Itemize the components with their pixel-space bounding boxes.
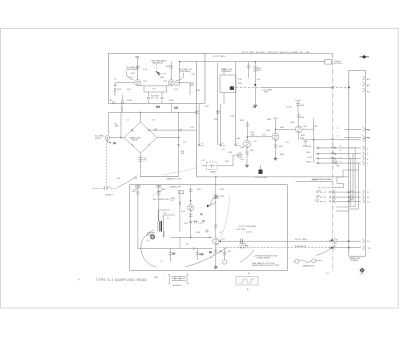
transistor Q45 bbox=[272, 133, 279, 140]
wire strobe line y130 bbox=[148, 129, 197, 131]
bridge rect T13 bbox=[144, 86, 167, 92]
wire mid box bottom bbox=[197, 176, 349, 178]
svg-text:A-5040-C: A-5040-C bbox=[173, 284, 183, 287]
svg-text:AMPL: AMPL bbox=[213, 197, 220, 200]
wire left edge down to input bbox=[108, 112, 110, 134]
wire Q35 emitter down bbox=[245, 147, 249, 165]
wire vertical R33 chain bbox=[254, 62, 256, 105]
ground arrow bbox=[254, 105, 258, 108]
svg-text:BLOCKING OSC: BLOCKING OSC bbox=[153, 199, 170, 201]
svg-text:2AT: 2AT bbox=[115, 125, 120, 128]
wire Q35 collector chain bbox=[246, 121, 250, 129]
feedthrough caps on edge bbox=[136, 185, 138, 187]
transformer T10 bbox=[160, 221, 162, 232]
wire H2 mid box top bbox=[198, 61, 326, 63]
tick segs at arrow tips bbox=[201, 145, 241, 147]
svg-text:INPUT: INPUT bbox=[95, 138, 102, 140]
svg-text:TRIG SENS: TRIG SENS bbox=[126, 69, 138, 71]
transistor Q13 bbox=[135, 80, 141, 86]
connector J on bottom edge bbox=[121, 101, 124, 104]
pin rows lower bbox=[336, 207, 349, 211]
wire H2 left junction drop bbox=[174, 62, 198, 86]
svg-text:TRIG AMPL: TRIG AMPL bbox=[179, 70, 191, 73]
pin arrows upper group bbox=[363, 76, 365, 80]
component +12.8 stub bbox=[295, 101, 301, 112]
junction beads bbox=[140, 112, 142, 114]
tek logo diamond bbox=[360, 268, 364, 272]
svg-text:READINGS: READINGS bbox=[303, 265, 315, 268]
svg-text:56R: 56R bbox=[264, 92, 268, 94]
svg-text:SAMPLE LOOP: SAMPLE LOOP bbox=[166, 178, 182, 181]
wire dashed vertical from input bbox=[105, 140, 107, 188]
wire base links bbox=[247, 129, 272, 140]
svg-text:BALANCE: BALANCE bbox=[153, 62, 164, 65]
wire Q14 chains bbox=[189, 185, 193, 205]
wire strobe arrows from box A bbox=[198, 104, 200, 146]
svg-text:OUT 50Ω: OUT 50Ω bbox=[236, 229, 246, 231]
right arrowheads bbox=[334, 147, 337, 164]
wire H1 top bbox=[204, 53, 333, 55]
top arrow glyph bbox=[360, 56, 370, 58]
transistor Q35 bbox=[244, 141, 251, 148]
svg-text:+100V: +100V bbox=[126, 100, 133, 102]
svg-text:+DLY'D TRIGGER: +DLY'D TRIGGER bbox=[238, 226, 256, 228]
dotted callout arc bbox=[163, 168, 198, 176]
blocking osc box S10 bbox=[220, 75, 236, 93]
wire outputs right bbox=[302, 118, 314, 163]
wire dashed horizontal y188 bbox=[92, 187, 118, 189]
svg-text:RESET: RESET bbox=[147, 235, 155, 237]
wire diamond right bbox=[157, 137, 179, 139]
svg-text:+: + bbox=[78, 278, 80, 282]
svg-text:+(1.5): +(1.5) bbox=[246, 232, 252, 234]
svg-text:AMPLIFIER BOARD: AMPLIFIER BOARD bbox=[312, 178, 332, 181]
ground stubs bbox=[245, 158, 277, 168]
R45 left chain bbox=[179, 190, 181, 232]
svg-text:BOARD: BOARD bbox=[351, 259, 359, 262]
attenuator dashed box bbox=[207, 162, 217, 170]
wire R-AT vertical bbox=[120, 112, 122, 137]
wire Q23 collector up bbox=[170, 62, 172, 80]
wire base Q23 right bbox=[175, 83, 190, 95]
rows 2-5 with left arrows bbox=[317, 147, 349, 149]
callout arc right bbox=[176, 73, 184, 81]
X mark bbox=[202, 220, 204, 222]
signal pins mid group bbox=[344, 127, 364, 131]
wire Q45 chain bbox=[274, 140, 278, 158]
transistor Q55 bbox=[295, 126, 302, 133]
timing box bbox=[325, 60, 332, 65]
connector strip bbox=[349, 71, 366, 257]
sampling bridge diamond bbox=[124, 122, 157, 153]
TP circle bbox=[112, 102, 114, 104]
pot dashed pointer bbox=[156, 64, 158, 70]
callout arcs bbox=[210, 197, 229, 260]
callout arc left bbox=[126, 71, 133, 80]
callout arc to sample loop bbox=[118, 176, 138, 188]
svg-text:RESET: RESET bbox=[106, 194, 114, 196]
svg-text:SEMICONDUCTOR TYPES: SEMICONDUCTOR TYPES bbox=[252, 265, 280, 267]
svg-text:SCOPE: SCOPE bbox=[334, 63, 342, 65]
wire Q23 output down bbox=[171, 103, 173, 112]
hop marks over V1 bbox=[331, 139, 334, 164]
svg-text:AMPL: AMPL bbox=[211, 171, 218, 174]
parts table box bbox=[168, 274, 189, 283]
svg-text:SNAP OFF: SNAP OFF bbox=[170, 186, 182, 189]
svg-text:GATE: GATE bbox=[132, 139, 138, 142]
cap C16 bbox=[194, 220, 198, 223]
wire base Q13 left bbox=[115, 83, 135, 87]
transistor Q14 blocking osc bbox=[188, 205, 194, 211]
wire sample loop bottom bbox=[140, 175, 179, 177]
pin hooks for output rows bbox=[363, 138, 365, 165]
box A trigger pickoff outline bbox=[109, 54, 206, 104]
wire delay line right bbox=[262, 86, 333, 88]
wire long vertical x178.7 bbox=[178, 112, 180, 176]
emitter follower Q5 circle bbox=[222, 260, 226, 264]
svg-text:+15V: +15V bbox=[314, 200, 320, 202]
resistor R37 chain bbox=[247, 62, 250, 78]
svg-text:CURRENT: CURRENT bbox=[221, 71, 232, 73]
svg-text:BLANKING: BLANKING bbox=[295, 245, 306, 248]
resistor R11 bbox=[121, 102, 123, 112]
wire dashed strobe line bbox=[232, 86, 349, 88]
svg-text:1M: 1M bbox=[181, 153, 184, 155]
wire input to diamond bbox=[110, 137, 124, 139]
big callout arc around TD bbox=[141, 230, 156, 267]
wire diamond bottom down bbox=[140, 153, 142, 176]
wire Q4 vertical bbox=[214, 177, 218, 238]
svg-text:+10V: +10V bbox=[307, 157, 313, 159]
wire diamond top up bbox=[140, 112, 142, 122]
wire V1 dash-dot bbox=[332, 54, 334, 249]
wire +12.8 row bbox=[296, 180, 333, 182]
svg-text:DC OFFSET: DC OFFSET bbox=[255, 177, 268, 179]
transistor Q23 bbox=[168, 80, 174, 86]
svg-text:DLY'D TRIG: DLY'D TRIG bbox=[295, 239, 307, 241]
svg-text:TRIG: TRIG bbox=[306, 162, 312, 164]
svg-text:TYPE S-2 SAMPLING HEAD: TYPE S-2 SAMPLING HEAD bbox=[96, 278, 147, 282]
wire B1 stub bbox=[137, 59, 139, 80]
svg-text:+12.8: +12.8 bbox=[286, 106, 292, 108]
svg-text:R4 50: R4 50 bbox=[240, 248, 247, 250]
input connector J1 bbox=[105, 136, 109, 140]
wire bus nest bbox=[349, 148, 355, 207]
box lower oscillator outline bbox=[130, 185, 288, 271]
svg-text:+SIG: +SIG bbox=[306, 146, 311, 148]
wire bottom rows bbox=[332, 241, 349, 248]
snap-off callout blob bbox=[207, 205, 210, 208]
variable cap arrow C17 bbox=[156, 71, 161, 76]
tunnel diode TD bbox=[151, 235, 155, 239]
wire tunnel diode branch bbox=[136, 185, 140, 249]
small component marks bbox=[200, 213, 203, 216]
diode marks on diamond bbox=[131, 129, 150, 147]
svg-text:DLY'D TRIG: DLY'D TRIG bbox=[213, 56, 225, 58]
svg-text:+50V: +50V bbox=[316, 190, 322, 192]
row1 bbox=[302, 139, 349, 141]
svg-text:COMPONENT: COMPONENT bbox=[256, 258, 271, 260]
svg-text:-100V: -100V bbox=[168, 100, 174, 102]
wire mid box left edge bbox=[196, 62, 198, 177]
wire Q55 chain bbox=[297, 112, 301, 126]
svg-text:DLY'D TRIG · HF SYNC · TRIG OU: DLY'D TRIG · HF SYNC · TRIG OUT · SMOOTH… bbox=[242, 51, 310, 54]
transistor Q4 bbox=[213, 238, 219, 244]
wire h links bbox=[138, 247, 213, 250]
waveform symbol bbox=[236, 277, 258, 286]
svg-text:-SIG: -SIG bbox=[306, 152, 311, 154]
pot R67 bbox=[259, 170, 263, 175]
svg-text:-50V: -50V bbox=[316, 195, 321, 197]
wire gate box top bbox=[109, 111, 197, 113]
X mark diamond edge bbox=[154, 128, 156, 130]
FET Q24 bbox=[237, 153, 242, 158]
voltage symbols bbox=[293, 259, 321, 264]
relay contact symbol bbox=[103, 186, 111, 188]
input branch arrow bbox=[107, 140, 111, 143]
wire power rows bottom bbox=[332, 192, 349, 201]
